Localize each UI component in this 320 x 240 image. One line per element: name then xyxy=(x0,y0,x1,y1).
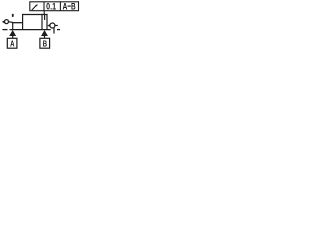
svg-text:A: A xyxy=(62,1,67,11)
frame divider 1 xyxy=(43,2,45,11)
journal top edge xyxy=(12,22,23,24)
shaft middle vertical xyxy=(41,14,43,30)
axis tick xyxy=(53,28,54,34)
left roller arrowhead xyxy=(2,20,5,23)
axis centerline dash left xyxy=(2,29,7,31)
left roller tail xyxy=(9,21,13,24)
datum B box xyxy=(40,38,50,48)
datum B stem xyxy=(44,36,46,39)
datum dash in A-B xyxy=(68,6,71,7)
svg-text:A: A xyxy=(10,39,14,49)
frame divider 2 xyxy=(59,2,61,11)
runout symbol arrowhead xyxy=(36,4,38,6)
right roller tail xyxy=(55,25,58,27)
feature control frame border xyxy=(30,2,79,11)
datum B triangle xyxy=(41,30,48,36)
right roller circle xyxy=(50,23,55,28)
leader line from frame xyxy=(43,11,45,15)
datum A stem xyxy=(12,36,14,39)
datum A box xyxy=(7,38,17,48)
red measurement arrow xyxy=(12,14,14,17)
shaft left step vertical xyxy=(22,14,24,30)
shaft right end vertical xyxy=(46,14,48,30)
shaft top edge xyxy=(22,14,48,16)
left roller circle xyxy=(5,20,9,24)
datum A triangle xyxy=(9,30,16,36)
axis centerline dash right xyxy=(57,29,60,31)
circular runout symbol arrow shaft xyxy=(32,5,37,10)
svg-text:0.1: 0.1 xyxy=(46,1,56,11)
svg-text:B: B xyxy=(71,1,76,11)
leader reversed arrowhead stub xyxy=(44,15,45,20)
axis centerline main xyxy=(10,29,51,31)
svg-text:B: B xyxy=(43,39,47,49)
right roller contact wedge xyxy=(47,24,50,27)
journal left end vertical xyxy=(12,22,14,30)
